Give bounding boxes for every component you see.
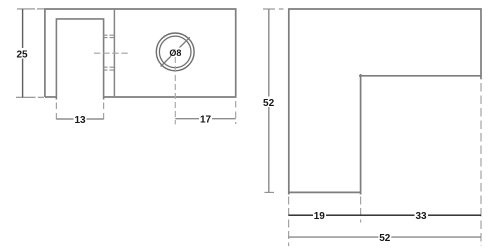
- dimension 19 text: [313, 210, 326, 222]
- svg-text:Ø8: Ø8: [169, 48, 181, 58]
- dimension 52 bottom line: [289, 236, 481, 238]
- svg-text:13: 13: [74, 115, 86, 126]
- extension line below left edge: [288, 197, 290, 247]
- dimension 25 extension top: [17, 8, 44, 10]
- svg-text:33: 33: [415, 211, 427, 222]
- svg-text:52: 52: [263, 98, 275, 109]
- dimension 17 text: [199, 113, 212, 125]
- hole circle inner: [159, 36, 191, 68]
- dimension 19 line: [289, 214, 361, 216]
- dimension 33 text: [415, 210, 429, 222]
- svg-text:19: 19: [314, 211, 326, 222]
- front view block outline: [45, 9, 236, 97]
- dimension 25 extension bottom: [16, 96, 44, 98]
- extension line right side: [480, 83, 482, 246]
- hidden line pair top: [103, 35, 115, 37]
- label Ø8: [169, 48, 182, 58]
- extension line below step: [360, 197, 362, 223]
- dimension 52 left line: [268, 9, 270, 192]
- dimension 52 left extension top: [263, 8, 284, 10]
- slot / tab 13 wide: [56, 19, 103, 100]
- dimension 52 left extension bottom: [265, 191, 275, 193]
- hole circle outer: [156, 33, 194, 71]
- dimension 52 bottom text: [378, 232, 391, 244]
- dimension 13 extension lines: [56, 103, 103, 124]
- horizontal centerline: [94, 52, 128, 54]
- inner edge line: [113, 9, 115, 97]
- dimension 25 text: [16, 48, 28, 60]
- dimension 17 extension line: [235, 101, 237, 124]
- dimension 25 line: [22, 9, 24, 98]
- svg-text:52: 52: [379, 233, 391, 244]
- svg-text:17: 17: [200, 115, 212, 126]
- dimension 13 line: [56, 118, 103, 120]
- dimension 52 left text: [263, 97, 276, 109]
- diagonal diameter line: [161, 37, 190, 66]
- vertical centerline below hole: [174, 57, 176, 124]
- hidden line pair bottom: [103, 67, 115, 70]
- side view L outline: [289, 9, 481, 195]
- dimension 33 line: [361, 214, 481, 216]
- svg-text:25: 25: [16, 49, 28, 60]
- dimension 13 text: [74, 114, 87, 126]
- dimension 17 line: [175, 118, 235, 120]
